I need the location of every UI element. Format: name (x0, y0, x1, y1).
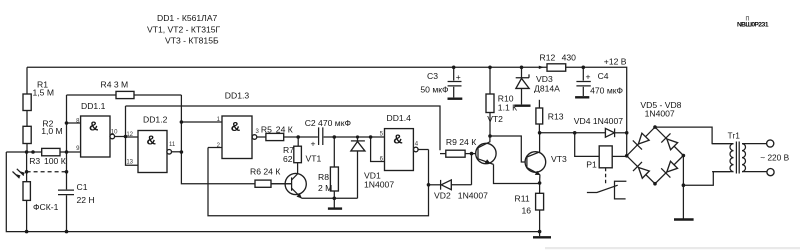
svg-text:24 К: 24 К (276, 125, 293, 135)
terminal ~220 В bottom (767, 169, 774, 176)
wire: DD1.3 pin 2 down and along bottom to VD2 node (208, 148, 429, 216)
ground: bottom rail right end (533, 232, 551, 238)
svg-text:11: 11 (169, 142, 176, 148)
svg-text:1,5 М: 1,5 М (33, 88, 55, 98)
svg-text:R9 24 К: R9 24 К (446, 137, 476, 147)
svg-text:R5: R5 (261, 125, 272, 135)
diode VD5 (top-left arm) (633, 133, 649, 149)
op-amp: NAND gate DD1.3 (208, 91, 266, 159)
resistor R2 (23, 119, 63, 153)
relay coil P1 (575, 133, 627, 170)
svg-text:R13: R13 (548, 111, 564, 121)
svg-text:ФСК-1: ФСК-1 (33, 202, 59, 212)
svg-text:VT1: VT1 (306, 154, 322, 164)
scan noise line bottom right (545, 247, 800, 249)
bridge rectifier VD5-VD8 (627, 100, 684, 184)
svg-text:22 Н: 22 Н (77, 195, 95, 205)
photoresistor ФСК-1 (13, 152, 59, 232)
svg-text:VD2: VD2 (434, 191, 451, 201)
capacitor C1 (58, 172, 95, 232)
svg-text:+: + (586, 71, 591, 81)
svg-text:R8: R8 (318, 172, 329, 182)
svg-text:NВШ0Р2З1: NВШ0Р2З1 (737, 22, 769, 29)
svg-text:1N4007: 1N4007 (645, 108, 675, 118)
svg-text:1N4007: 1N4007 (458, 191, 488, 201)
svg-text:R4 3 М: R4 3 М (101, 79, 129, 89)
svg-text:&: & (393, 132, 402, 147)
diode VD8 (bottom-right arm) (661, 161, 677, 177)
svg-text:10: 10 (111, 129, 118, 135)
diode VD1 (351, 137, 394, 190)
wire: VT1 emitter / R8 ground row (302, 151, 358, 198)
svg-text:VT3: VT3 (551, 154, 567, 164)
svg-text:62: 62 (283, 154, 293, 164)
svg-text:C3: C3 (427, 71, 438, 81)
wire: dashed link R3 node to photoresistor (27, 171, 67, 173)
wire: VT2 collector to VT3 base (490, 136, 527, 162)
wire: secondary bottom to bridge right column (683, 172, 730, 186)
resistor R10 (486, 67, 517, 136)
svg-text:430: 430 (562, 53, 577, 63)
svg-text:DD1.4: DD1.4 (387, 113, 412, 123)
wire: R4 right column / DD1.2 output node (180, 95, 182, 152)
svg-text:100 К: 100 К (44, 156, 66, 166)
op-amp: NAND gate DD1.4 (371, 113, 429, 170)
resistor R6 (250, 167, 292, 188)
svg-text:+12 В: +12 В (604, 56, 627, 66)
node: input column (pins 8,9 / R3 / R4 / C1) (66, 95, 68, 172)
wire: feedback line to R9 (y=106) (126, 106, 441, 150)
relay contact (dashed actuator link + switch) (587, 168, 627, 199)
wire: DD1.2 out down to R6 row (181, 152, 255, 184)
svg-text:9: 9 (76, 146, 80, 152)
transistor VT1 (271, 154, 321, 199)
transistor VT2 (476, 114, 540, 183)
svg-text:DD1.3: DD1.3 (225, 91, 250, 101)
wire: C2/VD1/DD1.4 input row (334, 136, 384, 138)
resistor R4 (67, 79, 182, 98)
svg-text:R3: R3 (29, 156, 40, 166)
resistor R5 (261, 125, 298, 141)
ground: below bridge (674, 218, 694, 220)
svg-text:R12: R12 (540, 53, 556, 63)
wire: DD1.1 output to DD1.2 inputs and feedback line (126, 106, 139, 165)
capacitor C2 (298, 118, 351, 149)
capacitor C4 (575, 67, 623, 97)
svg-text:3: 3 (256, 129, 260, 135)
svg-text:DD1.2: DD1.2 (143, 115, 168, 125)
resistor R8 (318, 137, 338, 198)
resistor R11 (515, 183, 544, 232)
diode VD2 (429, 180, 489, 201)
resistor R13 (536, 100, 564, 133)
svg-text:VT1, VT2 - КТ315Г: VT1, VT2 - КТ315Г (147, 25, 221, 35)
transformer Tr1 (712, 132, 767, 174)
svg-text:Д814А: Д814А (534, 83, 560, 93)
watermark smudge top right (737, 17, 769, 29)
svg-text:1N4007: 1N4007 (364, 180, 394, 190)
resistor R12 (540, 53, 577, 72)
transistor VT3 (525, 133, 567, 183)
svg-text:&: & (89, 119, 98, 134)
svg-text:12: 12 (126, 132, 133, 138)
svg-text:13: 13 (126, 160, 133, 166)
svg-text:R6 24 К: R6 24 К (250, 167, 280, 177)
svg-text:1,0 М: 1,0 М (41, 126, 63, 136)
resistor R7 (283, 137, 301, 174)
svg-text:P1: P1 (586, 160, 597, 170)
svg-text:DD1 - К561ЛА7: DD1 - К561ЛА7 (157, 13, 218, 23)
svg-text:+: + (311, 139, 316, 149)
svg-text:C1: C1 (77, 182, 88, 192)
wire: VD2 anode up to VT2 base node (471, 154, 473, 185)
svg-text:VT3 - КТ815Б: VT3 - КТ815Б (165, 36, 219, 46)
svg-text:&: & (231, 119, 240, 134)
svg-text:C2 470 мкФ: C2 470 мкФ (305, 118, 352, 128)
resistor R1 (23, 67, 54, 126)
op-amp: NAND gate DD1.2 (126, 115, 181, 173)
wire: bridge right corner down to ground (682, 156, 684, 219)
zener diode VD3 (514, 67, 560, 105)
svg-text:C4: C4 (598, 71, 609, 81)
wire: node to DD1.3 pin 1 (181, 121, 222, 123)
svg-text:50 мкФ: 50 мкФ (420, 84, 449, 94)
capacitor C3 (420, 67, 462, 98)
diode VD6 (top-right arm) (661, 133, 677, 149)
svg-text:470 мкФ: 470 мкФ (590, 85, 623, 95)
svg-text:Тг1: Тг1 (728, 132, 741, 141)
svg-text:16: 16 (522, 206, 532, 216)
svg-text:~ 220 В: ~ 220 В (760, 153, 789, 163)
diode VD7 (bottom-left arm) (633, 162, 649, 178)
svg-text:4: 4 (415, 141, 419, 147)
svg-text:&: & (147, 133, 156, 148)
title text: part list (147, 13, 221, 46)
terminal ~220 В top (767, 140, 774, 147)
wire: +supply top rail (27, 66, 627, 156)
svg-text:+: + (456, 72, 461, 82)
wire: bottom ground rail (6, 152, 539, 232)
svg-text:VD4 1N4007: VD4 1N4007 (574, 116, 623, 126)
op-amp: NAND gate DD1.1 (67, 101, 126, 157)
svg-text:2 М: 2 М (318, 183, 332, 193)
wire: VT3 collector node to VD4/P1 (540, 132, 606, 134)
diode VD4 (574, 116, 627, 137)
resistor R3 (6, 148, 66, 165)
svg-text:DD1.1: DD1.1 (81, 101, 106, 111)
ground: below R8 (328, 198, 342, 208)
wire: bridge top corner to transformer secondary top (655, 127, 730, 144)
svg-text:1.1 К: 1.1 К (498, 102, 517, 112)
svg-text:R11: R11 (515, 194, 530, 204)
resistor R9 (440, 137, 478, 157)
